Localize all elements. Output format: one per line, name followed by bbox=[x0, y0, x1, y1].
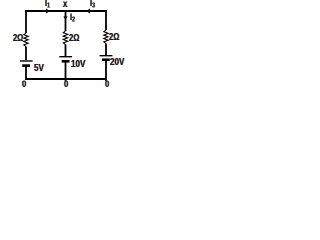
label I3 bbox=[90, 0, 95, 10]
wire right branch top segment bbox=[105, 10, 107, 30]
label B1 value 5V bbox=[34, 62, 44, 74]
label B3 value 20V bbox=[110, 56, 124, 68]
label B2 value 10V bbox=[71, 58, 85, 70]
arrow I1 right on top rail bbox=[46, 9, 50, 14]
wire top rail bbox=[25, 10, 107, 12]
wire bottom rail bbox=[25, 78, 107, 80]
wire left branch bottom segment bbox=[25, 67, 27, 81]
label node 0 left bbox=[22, 80, 26, 91]
resistor R3 2ohm right bbox=[104, 30, 108, 44]
wire middle branch mid segment bbox=[65, 45, 67, 56]
label I1 bbox=[45, 0, 50, 10]
wire right branch bottom segment bbox=[105, 61, 107, 81]
resistor R1 2ohm left bbox=[24, 33, 28, 47]
label node 0 middle bbox=[64, 80, 68, 91]
label node x bbox=[63, 0, 67, 11]
label R1 value 2ohm bbox=[13, 33, 23, 45]
label node 0 right bbox=[105, 80, 109, 91]
label R3 value 2ohm bbox=[109, 32, 119, 44]
label R2 value 2ohm bbox=[69, 33, 79, 45]
wire middle branch bottom segment bbox=[65, 62, 67, 81]
wire left branch mid segment bbox=[25, 47, 27, 60]
arrow I3 left on top rail bbox=[86, 9, 90, 14]
wire right branch mid segment bbox=[105, 44, 107, 55]
arrow I2 down bbox=[63, 17, 67, 21]
battery B2 10V plates bbox=[59, 56, 72, 58]
label I2 bbox=[70, 13, 75, 25]
wire middle branch top segment bbox=[65, 11, 67, 31]
resistor R2 2ohm middle bbox=[63, 31, 67, 45]
battery B3 20V plates bbox=[100, 55, 113, 57]
battery B1 5V plates bbox=[20, 60, 33, 62]
wire left branch top segment bbox=[25, 10, 27, 33]
